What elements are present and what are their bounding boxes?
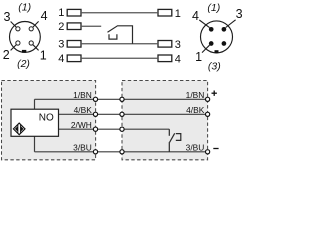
svg-text:1/BN: 1/BN xyxy=(186,90,205,100)
connector J1 body circle xyxy=(10,22,41,53)
svg-text:(1): (1) xyxy=(18,1,31,13)
terminal box 1 right xyxy=(158,9,172,16)
wire riser BU from sensor xyxy=(34,136,36,152)
terminal box 4 left xyxy=(67,55,81,62)
leader line pin4 xyxy=(33,21,39,27)
leader line pin3 xyxy=(11,22,17,28)
junction 4/BK at sensor connector xyxy=(93,112,97,116)
svg-text:4: 4 xyxy=(192,9,199,23)
connector J2 male face view xyxy=(199,20,235,53)
connector junction circles xyxy=(93,97,209,154)
terminal box 1 left xyxy=(67,9,81,16)
wire 1/BN xyxy=(35,98,208,100)
wire 4 xyxy=(81,57,158,59)
terminal 1/BN supply plus xyxy=(206,97,210,101)
svg-text:(1): (1) xyxy=(207,2,220,14)
svg-text:3/BU: 3/BU xyxy=(186,143,205,153)
leader line pin4 J2 xyxy=(199,20,209,28)
proximity sensor symbol xyxy=(13,123,25,135)
terminal box 2 left xyxy=(67,23,81,30)
wire 2/WH xyxy=(59,128,170,130)
pin hole 2 xyxy=(16,41,20,45)
pin hole 1 xyxy=(29,41,33,45)
svg-text:3: 3 xyxy=(236,7,243,21)
pin dot 2 xyxy=(222,41,227,46)
svg-text:4: 4 xyxy=(58,53,64,65)
terminal box 4 right xyxy=(158,55,172,62)
junction 1/BN at load connector xyxy=(120,97,124,101)
leader line pin1 xyxy=(33,45,39,51)
wire 1 xyxy=(81,12,158,14)
svg-text:(3): (3) xyxy=(208,61,221,73)
svg-text:1: 1 xyxy=(40,48,47,62)
leader line pin2 xyxy=(11,45,17,51)
junction 4/BK at load connector xyxy=(120,112,124,116)
svg-text:(2): (2) xyxy=(17,58,30,70)
keyway notch J1 xyxy=(22,50,26,53)
junction 2/WH at load connector xyxy=(120,127,124,131)
svg-text:1: 1 xyxy=(195,50,202,64)
svg-text:1: 1 xyxy=(58,7,64,19)
svg-text:2: 2 xyxy=(58,21,64,33)
svg-text:3: 3 xyxy=(3,10,10,24)
svg-text:4: 4 xyxy=(41,9,48,23)
svg-text:3: 3 xyxy=(58,38,64,50)
svg-text:1/BN: 1/BN xyxy=(73,90,92,100)
wire 3/BU xyxy=(35,151,208,153)
sensor enclosure dashed box xyxy=(2,81,96,160)
switch S1 NO contact xyxy=(108,26,133,44)
terminal box 3 left xyxy=(67,41,81,48)
wire 3 xyxy=(81,43,158,45)
junction 3/BU at sensor connector xyxy=(93,150,97,154)
svg-text:3: 3 xyxy=(175,39,181,51)
terminal box 3 right xyxy=(158,41,172,48)
junction 1/BN at sensor connector xyxy=(93,97,97,101)
leader line pin1 J2 xyxy=(202,45,210,52)
junction 3/BU at load connector xyxy=(120,150,124,154)
svg-text:4: 4 xyxy=(175,53,181,65)
pin hole 3 xyxy=(16,27,20,31)
svg-text:2: 2 xyxy=(3,48,10,62)
schematic terminals left column xyxy=(58,7,64,65)
svg-text:4/BK: 4/BK xyxy=(186,105,205,115)
terminal 4/BK output xyxy=(206,112,210,116)
pin dot 4 xyxy=(209,27,214,32)
pin dot 3 xyxy=(222,27,227,32)
sensor body box xyxy=(11,109,59,136)
wire riser BN to sensor xyxy=(34,99,36,109)
leader line pin3 J2 xyxy=(226,20,236,28)
svg-text:1: 1 xyxy=(175,8,181,20)
pin hole 4 xyxy=(29,27,33,31)
switch S2 NO contact in load box xyxy=(169,129,181,152)
terminal 3/BU supply minus xyxy=(206,150,210,154)
wire 2 stub xyxy=(81,25,101,27)
switch S2 lower terminal xyxy=(168,142,170,152)
load enclosure dashed box xyxy=(122,81,208,160)
connector J2 body circle xyxy=(201,21,233,53)
switch S2 moving contact xyxy=(170,133,175,142)
pin dot 1 xyxy=(209,41,214,46)
switch S1 actuator bracket xyxy=(109,34,117,39)
supply plus symbol xyxy=(212,91,217,96)
keyway notch J2 xyxy=(215,50,219,53)
svg-text:NO: NO xyxy=(39,112,54,123)
svg-text:2/WH: 2/WH xyxy=(71,120,92,130)
supply minus symbol xyxy=(213,148,218,150)
svg-text:4/BK: 4/BK xyxy=(74,105,93,115)
switch S2 actuator bracket xyxy=(176,134,181,141)
wire 4/BK xyxy=(59,113,208,115)
wire labels left box xyxy=(71,90,205,153)
switch S1 moving contact xyxy=(108,26,133,44)
junction 2/WH at sensor connector xyxy=(93,127,97,131)
svg-text:3/BU: 3/BU xyxy=(73,143,92,153)
switch S2 fixed terminal xyxy=(168,129,170,136)
connector J1 female face view xyxy=(10,21,41,52)
